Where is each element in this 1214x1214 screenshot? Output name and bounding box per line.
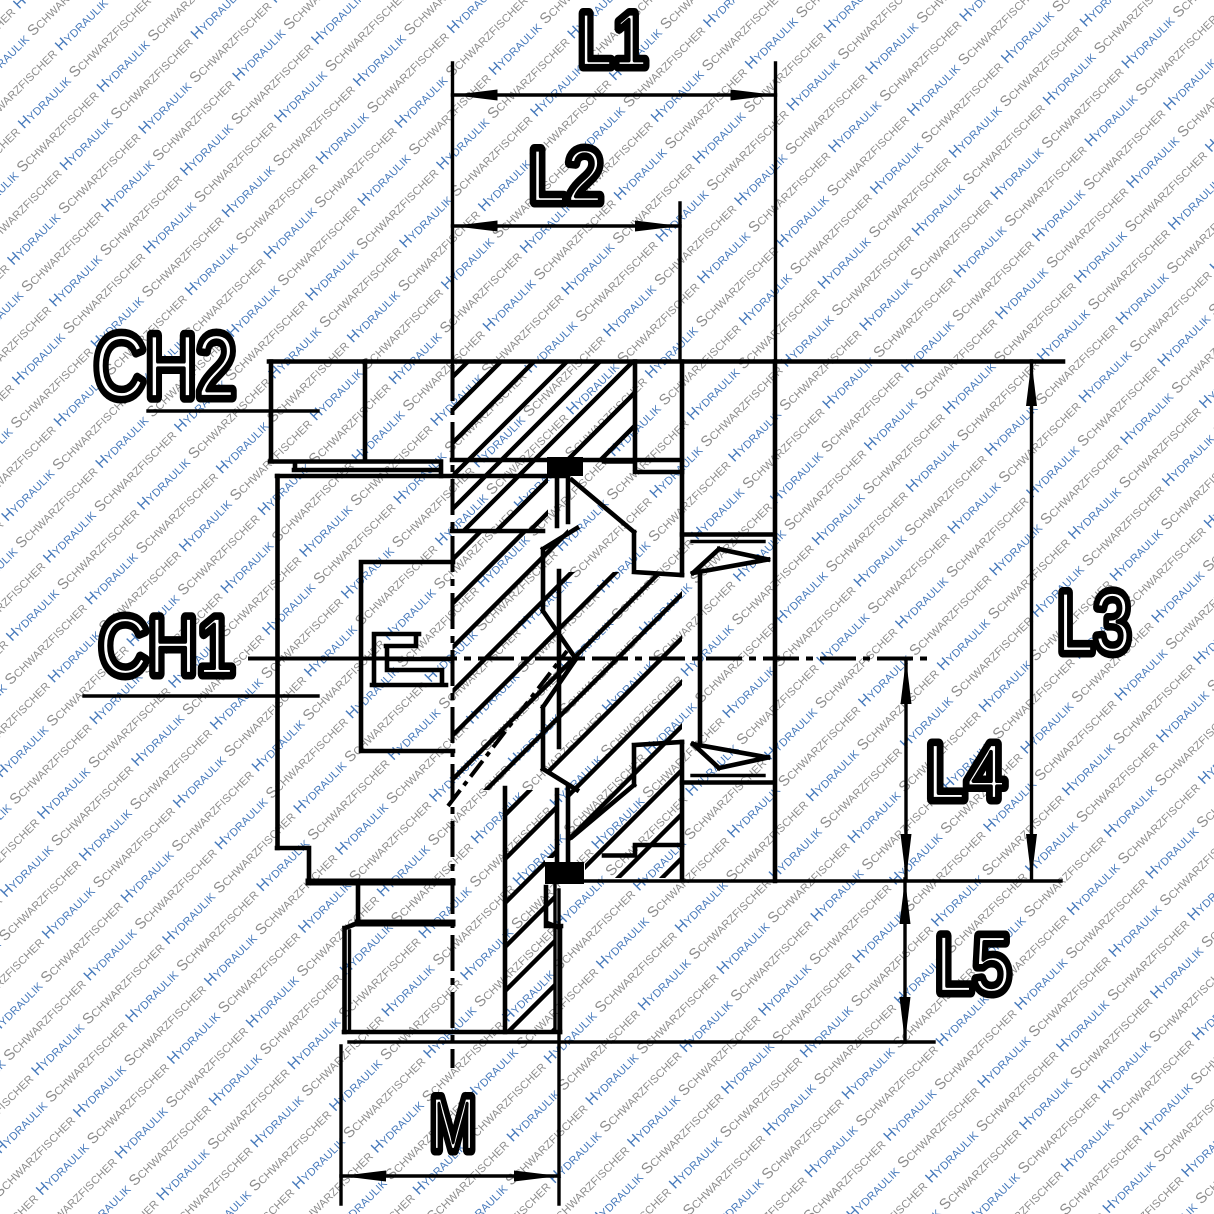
top hex left edge	[269, 362, 274, 462]
body right face	[773, 362, 778, 882]
stud bore wall	[503, 788, 508, 1032]
L3 dimension line	[1030, 361, 1033, 879]
body bottom line / L3 L4 bottom extension	[584, 879, 1061, 882]
hatch boundary mid	[452, 529, 543, 534]
L1 extension right	[774, 63, 777, 361]
port bore vertical	[698, 572, 703, 745]
M extension left	[339, 1046, 342, 1204]
M extension right	[557, 890, 560, 1204]
counterbore step lower	[604, 845, 682, 856]
L1 extension left / centerline top	[451, 63, 454, 365]
stud end face	[344, 1030, 560, 1035]
right port lower thread line	[682, 780, 773, 785]
svg-text:L4: L4	[926, 727, 1006, 816]
top hex bottom	[270, 462, 441, 477]
stud neck right	[546, 887, 561, 928]
body bottom left step	[277, 848, 309, 882]
counterbore chamfer lower	[572, 742, 682, 837]
seal upper (black)	[547, 457, 583, 476]
bore waist upper chamfer	[543, 528, 577, 659]
stud neck left	[345, 886, 358, 928]
L2 extension right	[678, 203, 681, 358]
M arrows	[341, 1171, 386, 1182]
counterbore chamfer upper	[572, 480, 682, 575]
flange band line	[309, 879, 452, 886]
CH1 hex flat rectangle	[361, 562, 453, 751]
stud thread minor right	[553, 884, 556, 1030]
M dimension line	[341, 1174, 559, 1177]
counterbore step upper	[604, 462, 682, 473]
tube walls upper	[557, 476, 568, 526]
CH1 leader line	[84, 694, 318, 697]
hatch: body band below axis	[453, 659, 575, 791]
L2 arrows	[453, 221, 498, 232]
thread relief spiral symbol	[372, 634, 452, 685]
svg-text:M: M	[430, 1082, 476, 1167]
L2 dimension line	[453, 224, 681, 227]
right port upper thread line	[682, 532, 773, 537]
stud chamfer face line / L5 bottom extension	[349, 1040, 934, 1043]
hatch: right body web	[568, 572, 682, 878]
vertical centerline	[451, 365, 455, 1068]
top hex middle flat edge	[363, 362, 368, 462]
bore waist lower chamfer	[543, 659, 577, 790]
horizontal centerline	[364, 657, 934, 661]
stud outer left	[342, 928, 347, 1032]
washer top right of axis	[452, 458, 682, 463]
L4 arrows	[901, 659, 912, 704]
cone wedge lower	[693, 744, 768, 768]
neck bottom line	[358, 920, 452, 927]
hatch: body band above axis	[453, 531, 575, 659]
diagonal cone centerline	[448, 651, 567, 806]
stud outer right	[558, 928, 563, 1032]
L4 dimension line	[904, 659, 907, 879]
body left edge	[275, 476, 280, 848]
right port thread minor lower	[692, 774, 764, 777]
body top line / L3 top extension	[269, 359, 1063, 364]
L3 arrows	[1026, 361, 1037, 406]
svg-text:L2: L2	[529, 134, 603, 219]
hatch: top nut section	[453, 362, 636, 532]
L5 dimension line	[903, 879, 906, 1042]
L5 arrows	[900, 879, 911, 924]
svg-text:L5: L5	[935, 919, 1011, 1010]
body top face	[277, 474, 568, 479]
svg-text:CH1: CH1	[99, 601, 235, 692]
svg-text:L3: L3	[1057, 575, 1131, 671]
cavity end vertical upper	[680, 362, 685, 576]
hatch: stud section	[505, 790, 557, 1032]
svg-text:L1: L1	[578, 0, 648, 83]
seal lower (black)	[545, 862, 584, 884]
svg-text:CH2: CH2	[94, 317, 236, 417]
tube walls lower	[557, 787, 568, 862]
L1 dimension line	[453, 93, 776, 96]
CH2 leader line	[148, 409, 318, 412]
horizontal centerline solid lead	[248, 657, 364, 661]
cone wedge upper	[693, 549, 768, 573]
L1 arrows	[453, 90, 498, 101]
stud thread minor left	[348, 931, 351, 1030]
top port thread bore right	[633, 362, 638, 461]
port pilot drill end	[557, 571, 562, 747]
hatch: waist sliver	[543, 526, 568, 790]
cavity end vertical lower	[680, 742, 685, 879]
right port thread minor upper	[692, 540, 764, 543]
